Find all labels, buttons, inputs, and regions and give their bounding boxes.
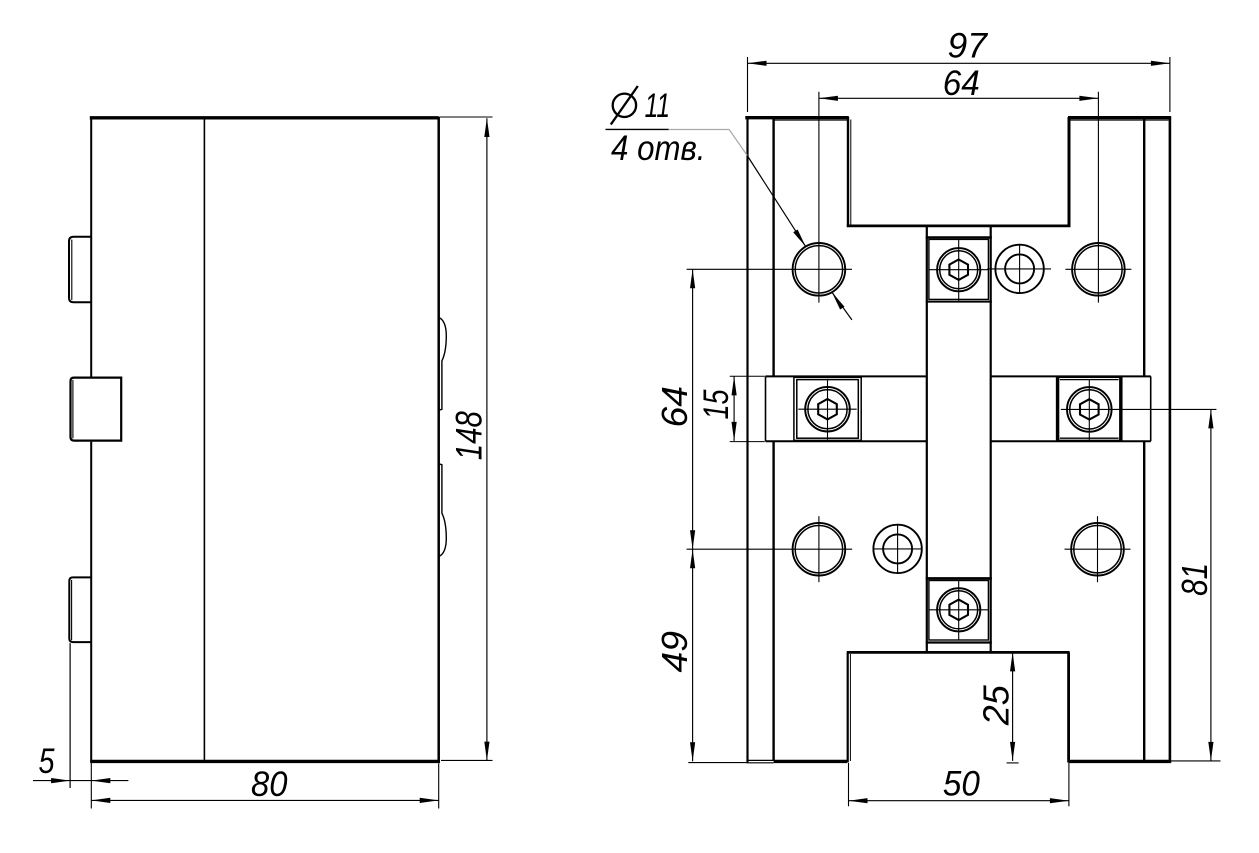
svg-text:5: 5 <box>39 741 55 781</box>
svg-text:25: 25 <box>976 685 1017 727</box>
svg-text:64: 64 <box>943 63 980 103</box>
svg-text:97: 97 <box>948 26 989 66</box>
svg-text:64: 64 <box>654 386 695 428</box>
svg-text:49: 49 <box>654 631 695 673</box>
svg-text:148: 148 <box>448 411 489 460</box>
svg-text:11: 11 <box>645 87 671 125</box>
svg-text:80: 80 <box>251 764 288 804</box>
svg-text:15: 15 <box>696 389 736 419</box>
svg-text:81: 81 <box>1174 563 1215 596</box>
svg-text:4 отв.: 4 отв. <box>611 128 706 168</box>
svg-text:50: 50 <box>943 764 980 804</box>
